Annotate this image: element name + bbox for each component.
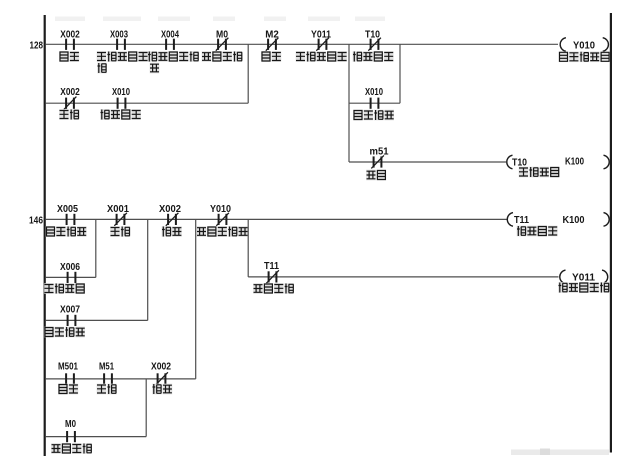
svg-text:Y011: Y011 [572,273,595,284]
svg-text:K100: K100 [563,215,585,226]
faint header watermark text [55,17,385,22]
label 关门按钮 under X007 [44,327,85,338]
label 下平层感应器 [148,51,199,73]
contact M501 (NO) 一楼 [58,362,78,385]
contact m51 (NC) 锁梯 [370,147,389,169]
svg-text:X002: X002 [60,87,80,98]
label 关门继电器 under coil Y011 [558,282,609,293]
wire X010 parallel branch [349,102,400,104]
svg-text:X002: X002 [159,204,181,215]
svg-text:Y011: Y011 [311,30,331,41]
svg-text:M51: M51 [99,362,114,373]
svg-text:X001: X001 [107,204,129,215]
contact X006 (NO) 向下按钮 [60,262,80,283]
contact Y011 (NC) 关门继电器 rung128 [311,30,331,51]
svg-text:128: 128 [30,39,44,51]
rung number 128 [30,39,44,51]
contact Y010 (NC) 开门继电器 rung146 [210,204,231,226]
svg-text:X004: X004 [161,30,179,41]
label 关门继电器 under Y011 [296,51,347,62]
label 运行 under M2 [261,51,281,62]
svg-text:X007: X007 [60,305,80,316]
label 检修 under X002 rowD [152,384,172,395]
contact M2 (NC) 运行 [265,30,279,51]
svg-text:T11: T11 [264,261,279,272]
right power rail [610,13,612,453]
svg-text:M2: M2 [265,30,279,41]
junction vertical x400 rung128 [399,44,401,103]
contact X002 (NC) 检修 rowD [151,362,171,386]
contact X002 (NC) 检修 rung146 [159,204,181,226]
junction vertical x349 rung128 [348,44,350,162]
label 检修 under X002 [59,51,79,62]
label 关门限时 under coil T11 [517,226,558,237]
svg-text:146: 146 [29,214,43,226]
label 启动关门 under M0 [202,51,243,62]
wire rung146 row A [46,218,507,220]
label 锁梯 under M51 [97,384,117,395]
svg-text:T10: T10 [365,30,380,41]
label 向上按钮 under X005 [46,226,87,237]
contact X010 (NO) 开门按钮 row2 [112,87,130,109]
rung number 146 [29,214,43,226]
coil T11 K100 关门限时 [507,213,609,227]
svg-text:X010: X010 [112,87,130,98]
label 上平层感应器 [97,51,148,73]
label 开门按钮 under X010 parallel [353,110,394,121]
coil T10 K100 开门限时 [507,155,609,169]
contact X010 (NO) 开门按钮 parallel T10 [365,87,383,109]
label 检修 under X002 rung146 [162,226,182,237]
wire rung128 row1 [46,43,558,45]
contact T10 (NC) 开门限时 rung128 [365,30,381,51]
label 一楼 under M501 [58,384,78,395]
label 开门按钮 under X010 row2 [100,109,141,120]
svg-text:M501: M501 [58,362,78,373]
svg-text:M0: M0 [65,419,76,430]
contact X001 (NC) 门锁 [107,204,129,226]
contact X007 (NO) 关门按钮 [60,305,80,327]
wire X007 branch [46,319,148,321]
svg-text:X005: X005 [57,204,78,215]
svg-text:Y010: Y010 [210,204,231,215]
svg-text:T11: T11 [514,215,529,226]
contact M0 (NO) 启动关门 rowE [65,419,76,442]
contact X003 (NO) 上平层感应器 [110,30,128,50]
junction vertical x195.5 rung146 [195,219,197,379]
junction vertical x248 rung128 [247,44,249,103]
svg-text:X002: X002 [151,362,171,373]
svg-text:m51: m51 [370,147,389,158]
contact X005 (NO) 向上按钮 [57,204,78,225]
label 启动关门 under M0 rowE [51,443,92,454]
svg-text:M0: M0 [216,30,228,41]
contact X002 (NO) 检修 rung128 [60,30,80,50]
left power rail [44,15,46,456]
svg-text:Y010: Y010 [573,40,595,51]
svg-text:X006: X006 [60,262,80,273]
coil Y010 开门继电器 [560,38,608,52]
label 开门继电器 under Y010 contact [197,226,248,237]
label 开门限时 under coil T10 [519,167,560,178]
label 锁梯 under m51 [366,170,386,181]
contact M51 (NO) 锁梯 rowD [99,362,114,385]
wire M0 branch row [46,436,146,438]
label 检修 under X002 row2 [59,109,79,120]
wire rung128 row2 branch [46,102,248,104]
wire m51 branch row [349,161,506,163]
label 门锁 under X001 [110,226,130,237]
label 向下按钮 under X006 [44,283,85,294]
faint bottom watermark [511,449,609,456]
label 开门限时 under T10 [353,51,394,62]
junction vertical x146 M0 branch [145,379,147,437]
contact X002 (NC) 检修 row2 [60,87,80,110]
contact M0 (NC) 启动关门 rung128 [216,30,229,51]
wire T11 branch row [248,276,558,278]
junction vertical x95.5 rung146 [95,219,97,277]
label 关门限时 under T11 contact [253,283,294,294]
wire M501 branch row [46,378,196,380]
svg-text:X010: X010 [365,87,383,98]
junction vertical x147.5 rung146 [147,219,149,320]
junction vertical x248 rung146 [247,219,249,277]
label 开门继电器 under coil Y010 [559,52,610,63]
svg-text:X003: X003 [110,30,128,41]
wire X006 branch [46,276,96,278]
contact T11 (NC) 关门限时 [264,261,279,283]
svg-text:K100: K100 [565,157,584,168]
coil Y011 关门继电器 [560,270,608,284]
contact X004 (NO) 下平层感应器 [161,30,179,50]
svg-text:X002: X002 [60,30,80,41]
